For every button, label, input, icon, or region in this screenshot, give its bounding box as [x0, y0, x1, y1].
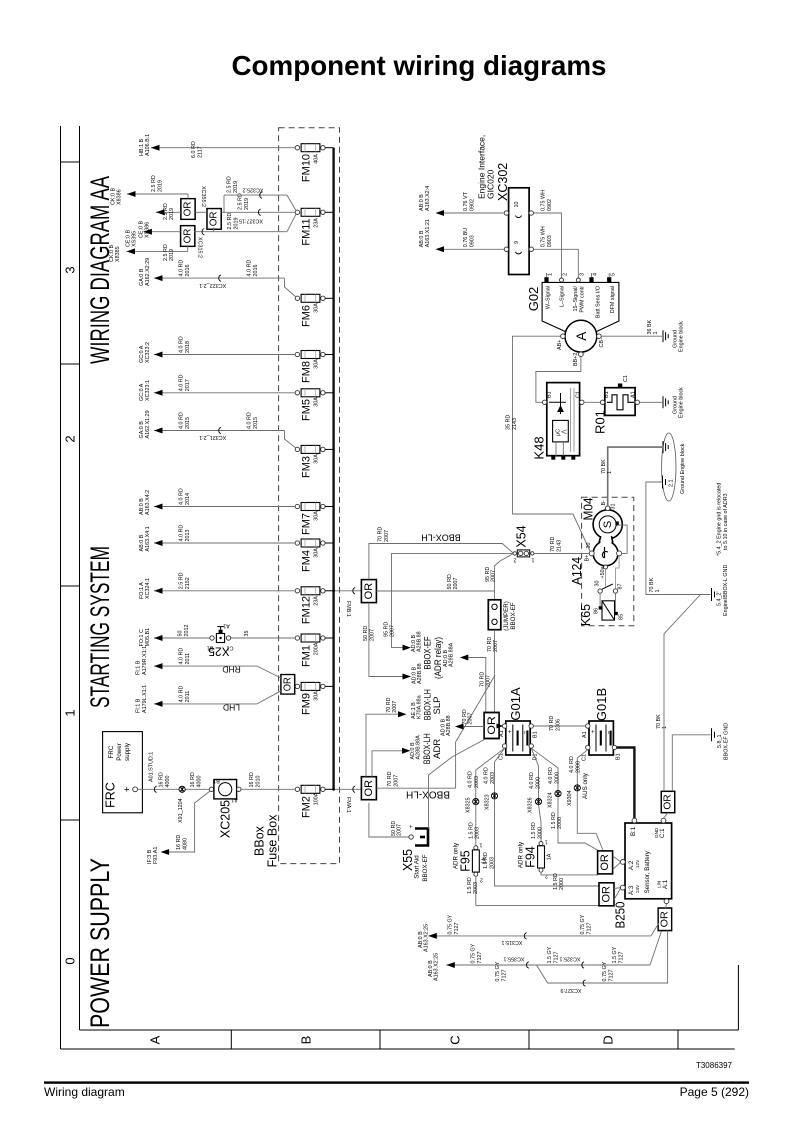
svg-text:0903: 0903: [547, 235, 553, 247]
svg-text:A179L.X1:1: A179L.X1:1: [142, 685, 148, 713]
svg-text:4.0 RD: 4.0 RD: [179, 412, 185, 429]
svg-text:⋀: ⋀: [562, 429, 568, 435]
svg-text:0.75 WH: 0.75 WH: [541, 226, 547, 247]
svg-text:+50a: +50a: [600, 566, 606, 578]
svg-text:F94: F94: [523, 846, 537, 868]
sensor battery B250: [613, 818, 672, 928]
wire FM6 feed: [139, 258, 296, 297]
wire XC302 pin10 left: [419, 186, 504, 216]
svg-text:B1: B1: [616, 753, 622, 760]
svg-text:2.5 RD: 2.5 RD: [227, 176, 233, 193]
svg-text:4.0 RD: 4.0 RD: [569, 756, 575, 773]
svg-text:FM2: FM2: [301, 796, 313, 818]
svg-text:0: 0: [63, 957, 78, 964]
svg-text:0.76 VT: 0.76 VT: [463, 191, 469, 211]
svg-text:ADR: ADR: [432, 739, 443, 759]
svg-text:0.76 BU: 0.76 BU: [463, 228, 469, 248]
svg-text:1: 1: [662, 726, 668, 729]
svg-text:A179R.X1:1: A179R.X1:1: [142, 646, 148, 675]
bus tap to FMB OR: [332, 588, 361, 617]
svg-text:85: 85: [619, 614, 625, 620]
svg-text:to 5.10 in case of ADR3: to 5.10 in case of ADR3: [723, 493, 729, 550]
connector X25: [207, 623, 234, 659]
wire OR-OR link: [195, 211, 207, 213]
svg-text:1A: 1A: [547, 853, 553, 860]
svg-text:31: 31: [610, 504, 616, 510]
svg-text:POWER SUPPLY: POWER SUPPLY: [85, 858, 115, 1028]
svg-text:2011: 2011: [185, 653, 191, 665]
alternator G02: [526, 273, 619, 366]
svg-text:Component wiring diagrams: Component wiring diagrams: [232, 50, 607, 81]
svg-text:16 RD: 16 RD: [190, 772, 196, 787]
wire FRC to XC205: [138, 752, 210, 793]
svg-text:B1: B1: [547, 391, 553, 398]
fuse FM12: [295, 587, 333, 624]
wire GY 7127 line3: [495, 931, 668, 994]
svg-text:X8325: X8325: [466, 797, 472, 813]
svg-text:1.5 RD: 1.5 RD: [467, 877, 473, 894]
svg-text:1: 1: [653, 332, 659, 335]
svg-text:2011: 2011: [185, 691, 191, 703]
svg-text:2306: 2306: [555, 719, 561, 731]
svg-text:2012: 2012: [184, 625, 190, 637]
svg-text:X8385: X8385: [115, 246, 121, 262]
or-gate OR A:2: [598, 851, 613, 874]
svg-text:4000: 4000: [165, 776, 171, 788]
svg-text:X8323: X8323: [484, 794, 490, 810]
svg-text:2000: 2000: [537, 827, 543, 839]
svg-text:XC327:15: XC327:15: [239, 218, 263, 224]
svg-text:XC325:1: XC325:1: [560, 956, 581, 962]
wire X54 lower line / 95 RD branch: [383, 553, 513, 650]
svg-text:1.5 RD: 1.5 RD: [551, 812, 557, 829]
svg-text:30A: 30A: [314, 511, 320, 521]
svg-text:A28B.88A: A28B.88A: [449, 642, 455, 667]
svg-text:XC315:2: XC315:2: [197, 237, 203, 258]
svg-text:10: 10: [514, 202, 520, 208]
svg-text:9: 9: [514, 241, 520, 244]
wire LHD branch: [136, 685, 282, 713]
svg-text:A163.X2:25: A163.X2:25: [433, 953, 439, 981]
svg-text:RHD: RHD: [222, 665, 240, 675]
svg-text:2019: 2019: [244, 198, 250, 210]
wire OR lower out to CE:0 B XS395: [126, 229, 181, 247]
ground cluster ellipse: [662, 433, 676, 501]
wire OR battery to X55 plus: [429, 740, 485, 829]
svg-text:FM12: FM12: [301, 596, 313, 624]
svg-text:C:1: C:1: [659, 828, 666, 838]
svg-text:A:1: A:1: [662, 879, 669, 889]
svg-text:6.0 RD: 6.0 RD: [191, 141, 197, 158]
wire G01A D1 to X8326/F94: [528, 748, 544, 841]
svg-text:1.5 GY: 1.5 GY: [547, 946, 553, 963]
wire FM3 feed: [139, 410, 296, 447]
svg-text:B250: B250: [613, 902, 628, 929]
svg-text:B1: B1: [604, 391, 610, 398]
svg-text:Ground Engine block: Ground Engine block: [680, 443, 686, 494]
svg-text:4.0 RD: 4.0 RD: [484, 767, 490, 784]
svg-text:A: A: [148, 1035, 163, 1044]
svg-text:−: −: [522, 730, 529, 734]
svg-text:XC323:2: XC323:2: [145, 342, 151, 363]
svg-text:4.0 RD: 4.0 RD: [247, 260, 253, 277]
svg-text:A124: A124: [569, 557, 584, 585]
wire M04 B- to engine ground: [601, 447, 662, 506]
wire GY 7127 line2: [428, 931, 662, 981]
svg-text:A1: A1: [499, 730, 505, 737]
svg-text:7127: 7127: [477, 952, 483, 964]
svg-text:A1: A1: [223, 623, 230, 629]
svg-text:XC355:1: XC355:1: [504, 956, 525, 962]
wire FM5 feed: [139, 374, 295, 401]
relay K65: [579, 556, 625, 626]
svg-text:2007: 2007: [384, 530, 390, 542]
svg-text:Fuse Box: Fuse Box: [266, 814, 280, 868]
svg-text:G01B: G01B: [594, 688, 609, 721]
fuse FM8: [295, 351, 333, 384]
svg-text:30A: 30A: [314, 359, 320, 369]
or-gate OR LIN A:1: [658, 908, 672, 931]
svg-text:1: 1: [63, 709, 78, 716]
svg-text:2007: 2007: [453, 578, 459, 590]
svg-text:supply: supply: [124, 742, 131, 761]
svg-text:4.0 RD: 4.0 RD: [179, 648, 185, 665]
svg-text:XC327:9: XC327:9: [561, 987, 582, 993]
svg-text:F93.A1: F93.A1: [153, 847, 159, 864]
svg-text:B+: B+: [585, 555, 591, 562]
svg-text:4.0 RD: 4.0 RD: [179, 488, 185, 505]
svg-text:FM1: FM1: [301, 645, 313, 667]
svg-text:30A: 30A: [314, 691, 320, 701]
svg-text:2.5 RD: 2.5 RD: [163, 244, 169, 261]
fuse FM10: [295, 144, 333, 182]
svg-text:0.75 GY: 0.75 GY: [447, 914, 453, 934]
svg-text:A163.X2:25: A163.X2:25: [423, 924, 429, 952]
wire jumper to OR battery: [487, 630, 499, 712]
svg-text:50 RD: 50 RD: [447, 574, 453, 589]
svg-text:2007: 2007: [392, 701, 398, 713]
svg-text:B: B: [299, 1036, 314, 1045]
svg-text:C1: C1: [582, 754, 588, 761]
svg-text:Batt Sens I/O: Batt Sens I/O: [596, 286, 602, 318]
svg-text:−: −: [605, 730, 612, 734]
svg-text:1: 1: [655, 590, 661, 593]
svg-text:4080: 4080: [182, 838, 188, 850]
svg-text:X25: X25: [208, 645, 230, 659]
wire OR to FM11 left: [221, 193, 295, 223]
svg-text:2007: 2007: [393, 775, 399, 787]
svg-text:S: S: [602, 521, 614, 528]
svg-text:2003: 2003: [475, 827, 481, 839]
svg-text:2.5 RD: 2.5 RD: [238, 193, 244, 210]
svg-text:FMB:1: FMB:1: [345, 601, 351, 617]
svg-text:7127: 7127: [609, 970, 615, 982]
fuse FM5: [295, 389, 333, 421]
svg-text:16 RD: 16 RD: [176, 835, 182, 850]
svg-text:Wiring diagram: Wiring diagram: [44, 1085, 125, 1099]
svg-text:SLP: SLP: [432, 697, 443, 715]
wire F94 to OR A:2: [541, 872, 598, 890]
svg-text:FM10: FM10: [301, 154, 313, 182]
svg-text:7127: 7127: [587, 923, 593, 935]
svg-text:A163.X4:2: A163.X4:2: [145, 490, 151, 515]
wire upper branch to FM11: [200, 176, 296, 212]
svg-text:AB+: AB+: [557, 340, 563, 350]
svg-text:2019: 2019: [233, 181, 239, 193]
svg-text:0.75 GY: 0.75 GY: [580, 914, 586, 934]
svg-text:95 RD: 95 RD: [383, 622, 389, 637]
svg-text:Sensor, Battery: Sensor, Battery: [644, 850, 651, 893]
labels BBOX-EF (ADR relay) arrows: [411, 631, 444, 684]
svg-text:50 RD: 50 RD: [363, 626, 369, 641]
svg-text:1: 1: [480, 842, 483, 848]
svg-text:X8386: X8386: [117, 189, 123, 205]
ground engine block top: [663, 441, 668, 453]
svg-text:2000: 2000: [557, 817, 563, 829]
svg-text:K65: K65: [579, 604, 593, 626]
wire X54 to M04 30 pin: [534, 552, 589, 554]
svg-text:X8324: X8324: [548, 792, 554, 808]
svg-text:16 RD: 16 RD: [159, 772, 165, 787]
svg-text:+: +: [122, 786, 133, 792]
wire solenoid right loop to S motor: [619, 525, 627, 553]
svg-text:LIN: LIN: [657, 881, 662, 888]
or-gate OR (mid): [207, 209, 221, 230]
svg-text:7127: 7127: [619, 952, 625, 964]
svg-text:200A: 200A: [314, 642, 320, 655]
wire FMA right output to X54 node: [376, 675, 495, 800]
wire OR battery top-left input to AD:0 B arrow: [443, 642, 491, 711]
svg-text:5: 5: [610, 273, 616, 276]
wire branch to F93.A1: [147, 791, 210, 864]
svg-text:1: 1: [548, 273, 554, 276]
svg-text:23A: 23A: [314, 596, 320, 606]
svg-text:2007: 2007: [490, 570, 496, 582]
wire XC302 pin9 right to G02 pin3: [534, 226, 579, 277]
svg-text:2143: 2143: [557, 540, 563, 552]
svg-text:AUS only: AUS only: [582, 772, 589, 799]
svg-text:FMA:1: FMA:1: [345, 797, 351, 813]
svg-text:70 RD: 70 RD: [550, 537, 556, 552]
svg-text:2007: 2007: [396, 824, 402, 836]
fuse FM11: [295, 208, 333, 245]
svg-text:BBOX-EF: BBOX-EF: [423, 636, 434, 669]
wire OR bottom to CK:0 B X8385: [109, 244, 188, 262]
wire FM12 feed: [139, 572, 295, 599]
svg-text:4.0 RD: 4.0 RD: [529, 772, 535, 789]
wire OR gnd to C:1: [664, 813, 669, 818]
svg-text:BBox: BBox: [253, 825, 267, 856]
BBox fuse box dashed outline: [279, 128, 340, 864]
wire G02 AB+ 35 RD to starter: [505, 336, 590, 551]
wire OR lin to A:1: [666, 904, 667, 909]
svg-text:2117: 2117: [198, 146, 204, 158]
svg-text:XC323:1: XC323:1: [145, 380, 151, 401]
svg-text:XS395: XS395: [132, 231, 138, 247]
svg-text:CB−: CB−: [599, 337, 605, 348]
svg-text:7127: 7127: [454, 923, 460, 935]
svg-text:A: A: [574, 332, 589, 341]
svg-text:4.0 RD: 4.0 RD: [468, 771, 474, 788]
svg-text:5.8_1: 5.8_1: [717, 735, 723, 749]
svg-text:C1: C1: [499, 753, 505, 760]
svg-text:2019: 2019: [169, 249, 175, 261]
svg-text:K48: K48: [532, 436, 547, 459]
wire FMB right output 50 RD to jumper: [376, 574, 494, 591]
svg-text:2.1: 2.1: [669, 480, 675, 488]
svg-text:FM3: FM3: [301, 456, 313, 478]
svg-text:A162.X1:29: A162.X1:29: [145, 410, 151, 438]
svg-text:2: 2: [514, 557, 517, 563]
svg-text:BBOX-EF: BBOX-EF: [510, 602, 517, 629]
svg-text:XC325:2: XC325:2: [243, 187, 264, 193]
fuse FM9: [295, 682, 333, 715]
footnote relocation: [717, 483, 730, 556]
svg-text:2007: 2007: [485, 675, 491, 687]
svg-text:30A: 30A: [314, 548, 320, 558]
svg-text:1: 1: [532, 557, 535, 563]
svg-text:30A: 30A: [314, 454, 320, 464]
svg-text:2016: 2016: [253, 265, 259, 277]
wire G01A C1 to X8323: [483, 748, 599, 886]
jumper BBOX-EF: [488, 600, 517, 631]
svg-text:XC324:1: XC324:1: [145, 578, 151, 599]
wire G02 CB- to ground: [601, 319, 684, 352]
fuse FM7: [295, 503, 333, 536]
wire FM10 feed: [139, 134, 295, 158]
svg-text:Power: Power: [116, 743, 123, 761]
svg-text:0903: 0903: [470, 235, 476, 247]
svg-text:X91_1204: X91_1204: [178, 798, 184, 823]
svg-text:2007: 2007: [493, 640, 499, 652]
svg-text:12V: 12V: [635, 859, 640, 868]
svg-text:2: 2: [63, 435, 78, 442]
svg-text:0.75 GY: 0.75 GY: [602, 961, 608, 981]
svg-text:7127: 7127: [554, 952, 560, 964]
relay K48: [532, 357, 585, 460]
svg-text:BBOX-LH: BBOX-LH: [421, 533, 461, 543]
battery G01A: [499, 687, 539, 760]
or-gate OR ground C:1: [661, 791, 675, 812]
fan OR A:3 to pin: [614, 888, 621, 900]
svg-text:2010: 2010: [256, 776, 262, 788]
svg-text:1.5 RD: 1.5 RD: [468, 822, 474, 839]
footer rule: [44, 1081, 749, 1083]
svg-text:2019: 2019: [234, 218, 240, 230]
wire 70 BK down to OR gnd: [664, 595, 701, 740]
svg-text:1.5 RD: 1.5 RD: [483, 852, 489, 869]
svg-text:LHD: LHD: [223, 703, 240, 713]
fuse F94: [518, 839, 553, 879]
svg-text:XC205: XC205: [219, 800, 233, 838]
wire FMB top output BBOX-LH to X54: [369, 527, 514, 580]
wire G01A B1 to G01B A1: [533, 716, 585, 731]
svg-text:BBOX-LH: BBOX-LH: [406, 789, 450, 800]
svg-text:16 RD: 16 RD: [249, 772, 255, 787]
svg-text:+: +: [507, 729, 514, 733]
svg-text:4.0 RD: 4.0 RD: [548, 767, 554, 784]
svg-text:A163.X4:1: A163.X4:1: [145, 526, 151, 551]
fuse FM3: [295, 445, 333, 478]
svg-text:FI:1 B: FI:1 B: [136, 698, 142, 713]
fuse FM2: [295, 785, 333, 818]
fuse FM6: [295, 294, 333, 327]
wire FMB bottom output to BBOX-EF ADR relay arrow: [363, 603, 411, 680]
svg-text:B:1: B:1: [630, 826, 637, 836]
wire G01A D1 to X8324: [531, 748, 600, 851]
wire G01A C1 to X8325/F95: [466, 748, 505, 845]
svg-text:A:3: A:3: [628, 885, 635, 895]
svg-text:1: 1: [545, 839, 548, 845]
svg-text:A163.X1:21: A163.X1:21: [425, 219, 431, 247]
svg-text:3: 3: [580, 273, 586, 276]
svg-text:2152: 2152: [185, 577, 191, 589]
svg-text:35 RD: 35 RD: [505, 415, 511, 430]
svg-text:2013: 2013: [185, 530, 191, 542]
svg-text:PWM contr: PWM contr: [580, 286, 586, 313]
svg-text:A28B.88A: A28B.88A: [416, 735, 422, 760]
wire XC302 pin10 right to G02 pin2: [534, 190, 562, 278]
svg-text:C1: C1: [623, 375, 629, 382]
wire R01 to ground: [640, 387, 685, 418]
connector XC302: [477, 135, 534, 275]
svg-text:A:2: A:2: [628, 860, 635, 870]
wire GY 7127 line1: [418, 914, 659, 952]
svg-text:0.75 WH: 0.75 WH: [541, 190, 547, 211]
svg-text:86: 86: [594, 608, 600, 614]
svg-text:0.75 GY: 0.75 GY: [495, 961, 501, 981]
box FRC power supply: [103, 732, 143, 813]
wire FM1 feed with X25: [139, 625, 295, 647]
svg-text:C1: C1: [576, 391, 582, 398]
bus tap to FMA OR: [332, 786, 361, 813]
svg-text:70 RD: 70 RD: [378, 527, 384, 542]
svg-text:87: 87: [618, 584, 624, 590]
svg-text:B1: B1: [213, 778, 220, 784]
svg-text:4.0 RD: 4.0 RD: [179, 525, 185, 542]
ground 2.1: [646, 443, 711, 594]
svg-text:+: +: [590, 729, 597, 733]
svg-text:BB+2: BB+2: [573, 353, 579, 366]
svg-text:23A: 23A: [314, 218, 320, 228]
svg-text:BBOX-EF GND: BBOX-EF GND: [723, 723, 729, 760]
svg-text:3: 3: [63, 266, 78, 273]
svg-text:2000: 2000: [555, 772, 561, 784]
wire OR battery to G01A A1: [497, 724, 504, 729]
svg-text:XC322_2:1: XC322_2:1: [199, 282, 226, 288]
svg-text:70 RD: 70 RD: [386, 697, 392, 712]
svg-text:A106.B:1: A106.B:1: [145, 134, 151, 156]
svg-text:15–Signal/: 15–Signal/: [573, 286, 579, 312]
svg-text:2143: 2143: [512, 418, 518, 430]
svg-text:FRC: FRC: [104, 782, 118, 808]
svg-text:2: 2: [563, 273, 569, 276]
svg-text:XC302: XC302: [496, 163, 510, 201]
or-gate OR (lower): [181, 226, 195, 247]
svg-text:2000: 2000: [575, 761, 581, 773]
svg-text:30A: 30A: [314, 397, 320, 407]
svg-text:M05.B1: M05.B1: [145, 628, 151, 647]
svg-text:X54: X54: [515, 525, 529, 547]
svg-text:2007: 2007: [468, 713, 474, 725]
svg-text:B1: B1: [532, 731, 538, 738]
svg-text:A163.X2:4: A163.X2:4: [425, 186, 431, 211]
svg-text:2015: 2015: [185, 417, 191, 429]
svg-text:1.5 GY: 1.5 GY: [612, 946, 618, 963]
svg-text:2000: 2000: [559, 878, 565, 890]
svg-text:L–Signal: L–Signal: [560, 286, 566, 307]
svg-text:FM8: FM8: [301, 361, 313, 383]
